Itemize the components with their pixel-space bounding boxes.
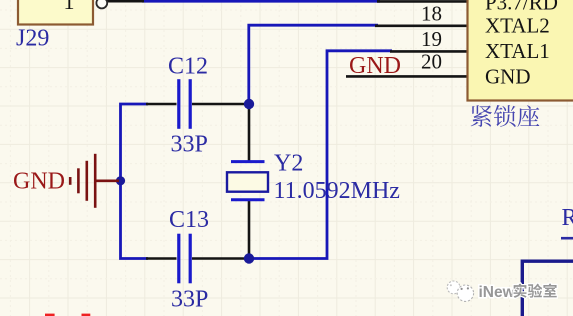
watermark char 实 [514,284,527,298]
capacitor C13 leads [146,257,177,260]
label char 锁 [494,105,516,127]
svg-text:GND: GND [13,169,65,195]
svg-text:J29: J29 [16,26,49,52]
svg-text:18: 18 [421,1,442,25]
capacitor C12 leads [146,103,177,106]
left vertical wire joining C12, GND, C13 [121,104,149,259]
red text fragment 2 (clipped at bottom) [82,314,91,316]
junction dot at GND tap [116,176,125,185]
crystal Y2 body [227,172,268,191]
junction dot at C12/XTAL2 [244,99,254,109]
svg-text:1: 1 [64,0,75,14]
label char 座 [517,105,539,127]
J29 pin terminal circle [96,0,107,8]
svg-text:19: 19 [421,27,442,51]
pin 19 lead XTAL1 [390,50,468,53]
svg-text:iNew: iNew [479,284,516,301]
svg-text:20: 20 [421,50,442,74]
svg-text:XTAL2: XTAL2 [485,14,550,38]
crystal Y2 top pin [248,104,251,161]
svg-text:XTAL1: XTAL1 [485,39,550,63]
svg-text:11.0592MHz: 11.0592MHz [274,178,400,204]
capacitor C13 plates [177,234,180,284]
pin 1 lead of J29 [106,0,144,3]
svg-text:R: R [562,205,573,231]
red text fragment 1 (clipped at bottom) [45,314,55,316]
wire net XTAL1: horizontal + vertical down to bottom rail [249,51,392,259]
wire net1 from J29 pin1 to P3.7/RD [142,0,380,3]
label char 紧 [471,105,492,127]
pin 17 lead P3.7/RD [377,0,468,3]
ground symbol (power ground, pointing right) [70,154,119,208]
svg-text:GND: GND [349,53,401,79]
watermark char 室 [543,284,556,298]
connector J29 body [18,0,93,25]
watermark logo [447,281,473,301]
IC body (紧锁座 socket) [468,0,573,101]
wire net XTAL2: horizontal + vertical to crystal top [249,25,378,104]
svg-text:C12: C12 [168,54,208,80]
pin 18 lead XTAL2 [375,24,468,27]
pin 20 lead GND [346,75,468,78]
svg-text:33P: 33P [171,287,208,313]
crystal Y2 bottom pin [248,200,251,259]
svg-text:GND: GND [485,64,531,88]
svg-text:33P: 33P [171,132,208,158]
capacitor C12 plates [177,79,180,129]
wire stub under R [561,237,573,240]
svg-text:P3.7/RD: P3.7/RD [485,0,558,14]
component outline corner (bottom right) [522,261,573,316]
svg-text:C13: C13 [169,207,209,233]
junction dot at C13/XTAL1 [244,253,254,263]
svg-text:Y2: Y2 [274,151,303,177]
watermark char 验 [528,284,542,298]
crystal Y2 electrode plates [231,160,265,163]
